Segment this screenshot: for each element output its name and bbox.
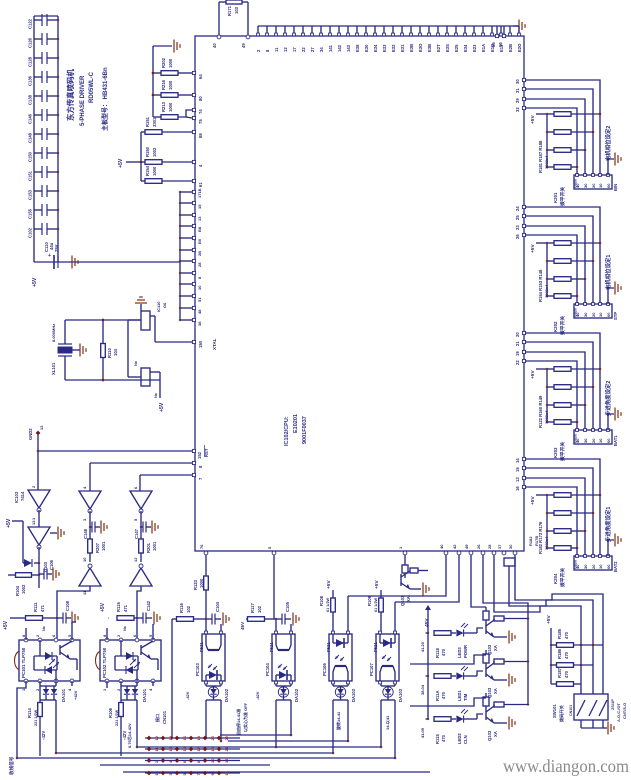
svg-text:TIM: TIM bbox=[463, 693, 468, 701]
svg-text:R108: R108 bbox=[319, 595, 324, 606]
op-amp gate T6 bbox=[130, 557, 152, 586]
label resistor names block2 bbox=[538, 269, 549, 302]
diode DA103 under PC106 bbox=[333, 684, 356, 702]
svg-text:R186: R186 bbox=[557, 648, 562, 659]
ground C108 bbox=[66, 612, 78, 625]
label +45V PC104 bbox=[240, 621, 245, 630]
svg-text:BAT2: BAT2 bbox=[613, 561, 618, 572]
svg-text:C148: C148 bbox=[83, 528, 88, 539]
svg-text:88: 88 bbox=[198, 133, 203, 138]
transistor Q2 inverter gate IC10B bbox=[128, 320, 160, 398]
svg-text:E30: E30 bbox=[364, 44, 369, 52]
wire pin 13 to switch bbox=[525, 478, 585, 556]
svg-text:DA102: DA102 bbox=[224, 688, 229, 702]
IC bottom edge pin cluster bbox=[439, 544, 517, 555]
svg-text:电机相位设定2: 电机相位设定2 bbox=[604, 126, 612, 161]
svg-text:00: 00 bbox=[606, 438, 611, 443]
node IC pin 29 block1 bbox=[515, 97, 526, 103]
transistor Q103 row2 bbox=[483, 650, 529, 698]
svg-text:27: 27 bbox=[310, 47, 315, 52]
resistor R185 470 bbox=[551, 628, 603, 647]
svg-text:E32: E32 bbox=[391, 44, 396, 52]
svg-text:1002x4: 1002x4 bbox=[544, 536, 549, 550]
capacitor chain C102-C155 decoupling bbox=[28, 14, 60, 262]
wire PC101 pin1 to signal bbox=[17, 681, 26, 758]
svg-text:471: 471 bbox=[40, 604, 45, 612]
capacitor C106 bbox=[39, 559, 54, 579]
diode DA103 under PC107 bbox=[381, 684, 403, 702]
svg-text:R154 R153 R148: R154 R153 R148 bbox=[538, 269, 543, 302]
node pin49 bbox=[241, 35, 250, 48]
svg-text:XA: XA bbox=[493, 731, 498, 737]
svg-text:PC103: PC103 bbox=[195, 663, 200, 676]
svg-text:C108: C108 bbox=[65, 600, 70, 611]
wire PC101 pin3 down bbox=[55, 681, 57, 753]
svg-text:1000: 1000 bbox=[199, 578, 204, 588]
svg-text:以实心为准 OFF: 以实心为准 OFF bbox=[242, 702, 248, 732]
svg-text:1001: 1001 bbox=[101, 541, 106, 551]
svg-text:E3B: E3B bbox=[409, 44, 414, 52]
capacitor C105 bbox=[276, 601, 290, 624]
label +5V gates bbox=[6, 518, 23, 528]
svg-text:11: 11 bbox=[274, 47, 279, 52]
svg-text:-42V: -42V bbox=[185, 691, 190, 700]
svg-text:E2T: E2T bbox=[436, 44, 441, 52]
svg-text:25V: 25V bbox=[54, 244, 59, 252]
resistor R202 1000 bbox=[153, 57, 192, 75]
svg-text:C142: C142 bbox=[146, 600, 151, 611]
svg-text:步进角度设定1: 步进角度设定1 bbox=[604, 507, 612, 542]
node IC pin 20 block3 bbox=[515, 331, 526, 337]
svg-text:25: 25 bbox=[515, 215, 520, 220]
svg-text:STP: STP bbox=[613, 312, 618, 320]
wire PC102 pin2 down bbox=[120, 681, 122, 702]
svg-text:49: 49 bbox=[241, 43, 246, 48]
wire LED rail bbox=[427, 610, 429, 719]
svg-text:E2O: E2O bbox=[517, 43, 522, 52]
crystal XL101 8.000M bbox=[51, 324, 72, 375]
resistor R151 3301 bbox=[141, 116, 192, 134]
svg-text:40: 40 bbox=[439, 544, 444, 549]
node pin 8 bbox=[192, 461, 203, 468]
wire PC104 outputs to CN101 bbox=[274, 700, 292, 749]
svg-text:37: 37 bbox=[497, 544, 502, 549]
svg-text:10: 10 bbox=[598, 438, 603, 443]
label +5V group2 bbox=[118, 158, 141, 168]
svg-text:R187: R187 bbox=[557, 667, 562, 678]
diode D103 bbox=[23, 559, 48, 572]
wire pin 29 to switch bbox=[525, 99, 585, 175]
label text under PC106 bbox=[335, 711, 341, 731]
wire +5V rail to C110 bbox=[34, 261, 180, 263]
svg-text:1002: 1002 bbox=[152, 147, 157, 157]
transistor Q103 row3 bbox=[483, 693, 529, 741]
svg-text:+5V: +5V bbox=[159, 402, 165, 412]
label +5V block4 bbox=[530, 494, 548, 505]
label BAT1 bbox=[613, 435, 618, 446]
resistor R115 471 bbox=[108, 602, 137, 621]
svg-text:E3O: E3O bbox=[418, 43, 423, 52]
svg-text:14-以41: 14-以41 bbox=[385, 715, 390, 730]
svg-text:32: 32 bbox=[515, 107, 520, 112]
wire R185 rail bbox=[550, 628, 553, 684]
label -42V b bbox=[122, 731, 127, 740]
node pins 74 75 bbox=[192, 108, 203, 124]
wire pin 24 to switch bbox=[525, 207, 600, 304]
wire T1 out to T7 bbox=[38, 510, 40, 527]
wire pin 26 to switch bbox=[525, 235, 577, 304]
svg-text:22: 22 bbox=[224, 735, 229, 740]
svg-text:14: 14 bbox=[515, 458, 520, 463]
ground SW101 bbox=[603, 722, 614, 735]
svg-text:-42V: -42V bbox=[255, 691, 260, 700]
svg-text:30: 30 bbox=[583, 312, 588, 317]
ground block3 bbox=[608, 408, 621, 431]
svg-text:+5V: +5V bbox=[6, 518, 12, 528]
svg-text:Nc: Nc bbox=[123, 626, 127, 631]
svg-text:12: 12 bbox=[133, 557, 138, 562]
svg-text:C102: C102 bbox=[28, 227, 33, 238]
capacitor C104 bbox=[206, 601, 220, 624]
svg-text:R116: R116 bbox=[179, 603, 184, 613]
svg-text:R185: R185 bbox=[557, 628, 562, 639]
svg-text:1002x4: 1002x4 bbox=[544, 155, 549, 169]
diode DA102 under PC103 bbox=[206, 684, 229, 702]
wire pin 30 to switch bbox=[525, 80, 600, 175]
svg-text:16: 16 bbox=[182, 735, 187, 740]
wire bundle c to Q103 base bbox=[471, 555, 486, 607]
resistor R216 1000 bbox=[153, 79, 192, 97]
svg-text:SW101: SW101 bbox=[552, 704, 557, 718]
svg-text:1000: 1000 bbox=[152, 166, 157, 176]
capacitor C148 bbox=[83, 522, 95, 540]
svg-text:R114: R114 bbox=[27, 708, 32, 718]
wire feed Q103 row3 bbox=[410, 698, 486, 706]
svg-text:PC106: PC106 bbox=[322, 663, 327, 676]
svg-text:GND8: GND8 bbox=[574, 560, 578, 569]
resistor R114 221 1/2W bbox=[27, 703, 42, 757]
resistor R187 470 bbox=[551, 667, 581, 686]
svg-text:POWR: POWR bbox=[463, 645, 468, 658]
node IC pin 22 block3 bbox=[515, 359, 526, 365]
svg-text:+5V: +5V bbox=[32, 277, 38, 287]
node IC pin 13 block4 bbox=[515, 476, 526, 482]
wire PC102 pin4 stub bbox=[152, 681, 154, 686]
svg-text:XA: XA bbox=[493, 688, 498, 694]
svg-text:+5V: +5V bbox=[530, 115, 536, 124]
resistor pullup block3 row4 bbox=[546, 420, 579, 425]
svg-text:拨码开关: 拨码开关 bbox=[558, 704, 565, 722]
svg-text:PC107: PC107 bbox=[369, 663, 374, 676]
svg-text:Q101: Q101 bbox=[400, 595, 405, 606]
svg-text:74: 74 bbox=[198, 109, 203, 114]
svg-text:38: 38 bbox=[197, 321, 202, 326]
capacitor C142 bbox=[137, 600, 151, 623]
resistor R110 104 bbox=[101, 318, 118, 381]
svg-text:15: 15 bbox=[197, 204, 202, 209]
resistor pullup block2 row4 bbox=[546, 294, 579, 299]
node net label row2 bbox=[420, 684, 425, 695]
wire top ground bus bbox=[258, 25, 519, 27]
svg-text:C104: C104 bbox=[215, 601, 220, 612]
svg-text:28: 28 bbox=[487, 544, 492, 549]
svg-text:主板型号： HB431-6Bn: 主板型号： HB431-6Bn bbox=[101, 67, 109, 131]
wire PC103 top right pin bbox=[220, 624, 222, 631]
svg-text:R150: R150 bbox=[145, 146, 150, 157]
svg-text:48: 48 bbox=[197, 309, 202, 314]
svg-text:30: 30 bbox=[508, 544, 513, 549]
label +5V R185 bbox=[546, 615, 552, 624]
resistor R109 61 1/2W bbox=[367, 590, 383, 631]
svg-text:470: 470 bbox=[441, 734, 446, 742]
connector CN101 pin row 3 bbox=[145, 758, 240, 763]
ground crystal bbox=[72, 344, 86, 357]
op-amp gate T2 bbox=[79, 486, 101, 521]
label BIN bbox=[613, 184, 618, 191]
svg-text:102: 102 bbox=[186, 605, 191, 613]
ground C148 bbox=[95, 521, 107, 534]
ground block1 bbox=[608, 153, 621, 176]
wire PC103 outputs to CN101 bbox=[204, 700, 222, 743]
svg-text:C105: C105 bbox=[285, 601, 290, 612]
label function block1 bbox=[604, 126, 612, 161]
svg-text:RD05WL-C: RD05WL-C bbox=[89, 71, 95, 103]
svg-text:LED2: LED2 bbox=[457, 733, 462, 744]
resistor R116 102 bbox=[172, 603, 207, 622]
resistor pullup block3 row1 bbox=[547, 367, 602, 372]
svg-text:拨平开关: 拨平开关 bbox=[559, 316, 566, 335]
svg-text:22: 22 bbox=[301, 47, 306, 52]
resistor R201 1001 bbox=[139, 539, 157, 562]
svg-text:30: 30 bbox=[583, 564, 588, 569]
svg-text:15: 15 bbox=[515, 467, 520, 472]
svg-text:DA103: DA103 bbox=[351, 688, 356, 702]
svg-text:P521: P521 bbox=[199, 642, 204, 652]
svg-text:8.000MHz: 8.000MHz bbox=[51, 324, 56, 342]
svg-text:20: 20 bbox=[591, 312, 596, 317]
svg-text:42: 42 bbox=[452, 544, 457, 549]
resistor pullup block2 row3 bbox=[546, 277, 587, 282]
wire pin 23 to switch bbox=[525, 226, 585, 304]
svg-text:+: + bbox=[48, 253, 51, 259]
label +5V block2 bbox=[530, 242, 548, 253]
svg-text:R118: R118 bbox=[435, 648, 440, 658]
svg-text:49: 49 bbox=[464, 544, 469, 549]
svg-text:10: 10 bbox=[598, 312, 603, 317]
svg-text:20: 20 bbox=[210, 735, 215, 740]
wire pin7 to gate T3 bbox=[140, 475, 192, 491]
wire pullup rail block2 bbox=[546, 243, 548, 296]
svg-text:E23: E23 bbox=[472, 44, 477, 52]
resistor R118 and LED LED3 bbox=[426, 623, 484, 658]
connector K202 block2 bbox=[574, 303, 613, 318]
svg-text:Nc: Nc bbox=[42, 626, 46, 631]
wire rail group2 bbox=[139, 132, 142, 181]
node IC pin 26 block2 bbox=[515, 233, 526, 239]
svg-text:C155: C155 bbox=[28, 208, 33, 219]
resistor R123 1000 bbox=[193, 555, 208, 631]
svg-text:自由停14-41准: 自由停14-41准 bbox=[235, 709, 241, 735]
wire bundle e to SW col1 bbox=[494, 555, 581, 694]
resistor pullup block1 row2 bbox=[546, 130, 595, 135]
node pin 80 bbox=[151, 93, 203, 101]
svg-text:C148: C148 bbox=[28, 132, 33, 143]
svg-text:PC102 TLP750: PC102 TLP750 bbox=[102, 647, 107, 678]
svg-text:471: 471 bbox=[123, 604, 128, 612]
resistor pullup block2 row2 bbox=[546, 259, 595, 264]
svg-text:Q103: Q103 bbox=[487, 730, 492, 741]
label function block2 bbox=[604, 255, 612, 290]
svg-text:PC101 TLP750: PC101 TLP750 bbox=[21, 647, 26, 678]
svg-text:1000: 1000 bbox=[168, 102, 173, 112]
svg-text:B0: B0 bbox=[197, 238, 202, 244]
svg-text:E3B: E3B bbox=[427, 44, 432, 52]
svg-text:CN101: CN101 bbox=[162, 710, 167, 724]
resistor pullup block2 row1 bbox=[547, 241, 602, 246]
svg-text:171B: 171B bbox=[197, 188, 202, 198]
svg-text:22: 22 bbox=[515, 360, 520, 365]
svg-text:GND8: GND8 bbox=[574, 179, 578, 188]
svg-text:+5V: +5V bbox=[100, 602, 106, 612]
svg-text:BIN: BIN bbox=[613, 184, 618, 191]
svg-text:-42V: -42V bbox=[41, 731, 46, 740]
connector CN101 pin row 4 bbox=[145, 770, 240, 775]
svg-text:CLN: CLN bbox=[463, 735, 468, 744]
svg-text:15: 15 bbox=[182, 746, 187, 751]
ground Q103 row3 bbox=[494, 717, 515, 730]
wire bundle f to SW col2 bbox=[509, 566, 593, 694]
label +5V bbox=[32, 277, 38, 287]
svg-text:电机相位设定1: 电机相位设定1 bbox=[604, 255, 612, 290]
label SW101 functions bbox=[610, 699, 627, 722]
svg-text:R11A: R11A bbox=[435, 691, 440, 701]
svg-text:LED3: LED3 bbox=[457, 647, 462, 658]
svg-text:E34: E34 bbox=[463, 44, 468, 52]
wire bundle b to PC107 bbox=[395, 555, 459, 631]
diode pair DA101b bbox=[121, 686, 147, 702]
svg-text:P521: P521 bbox=[326, 642, 331, 652]
svg-text:E10201: E10201 bbox=[293, 414, 299, 433]
svg-text:75: 75 bbox=[198, 119, 203, 124]
node IC pin 25 block2 bbox=[515, 214, 526, 220]
resistor R115 and LED LED2 bbox=[426, 709, 484, 744]
svg-text:BAT1: BAT1 bbox=[613, 435, 618, 446]
wire PC102 pin1 stub bbox=[106, 681, 108, 688]
label +5V R109 bbox=[374, 580, 380, 589]
svg-text:221 1/2W: 221 1/2W bbox=[34, 709, 38, 726]
diode pair DA101 bbox=[40, 686, 66, 702]
label text under PC107 bbox=[385, 715, 390, 730]
svg-text:P521: P521 bbox=[373, 642, 378, 652]
svg-text:步进角度设定2: 步进角度设定2 bbox=[604, 381, 612, 416]
svg-text:80: 80 bbox=[198, 96, 203, 101]
svg-text:R111: R111 bbox=[33, 602, 38, 612]
label +5V block3 bbox=[530, 368, 548, 379]
svg-text:LED1: LED1 bbox=[457, 690, 462, 701]
wire PC101 pin4 stub bbox=[71, 681, 73, 686]
ground C142 bbox=[146, 612, 160, 625]
svg-text:GND8: GND8 bbox=[574, 434, 578, 443]
svg-text:K203: K203 bbox=[553, 447, 558, 458]
svg-text:C151: C151 bbox=[28, 170, 33, 181]
svg-text:E3S: E3S bbox=[445, 44, 450, 52]
svg-text:45V: 45V bbox=[424, 618, 430, 627]
wire T2 out to C148 node bbox=[89, 511, 91, 539]
diode DA102 under PC104 bbox=[276, 684, 299, 702]
svg-text:DA101: DA101 bbox=[142, 688, 147, 702]
svg-text:IC103: IC103 bbox=[14, 491, 19, 503]
svg-text:XA: XA bbox=[493, 645, 498, 651]
svg-text:45V: 45V bbox=[240, 621, 245, 630]
resistor pullup block1 row1 bbox=[547, 112, 602, 117]
svg-text:R122 R160 R149: R122 R160 R149 bbox=[538, 395, 543, 428]
svg-text:470: 470 bbox=[441, 648, 446, 656]
svg-text:P521: P521 bbox=[269, 642, 274, 652]
svg-text:1002x4: 1002x4 bbox=[544, 284, 549, 298]
node IC pin 32 block1 bbox=[515, 106, 526, 112]
svg-text:12: 12 bbox=[224, 758, 229, 763]
wire bundle loop bbox=[504, 558, 515, 566]
svg-text:GND2: GND2 bbox=[28, 428, 33, 440]
resistor R106 221 1/2W bbox=[108, 703, 123, 757]
ground block4 bbox=[608, 534, 621, 557]
node junction R185 bbox=[579, 643, 594, 646]
wire GND2 to RST pin bbox=[36, 435, 192, 490]
node IC pin 15 block4 bbox=[515, 466, 526, 472]
svg-text:1000: 1000 bbox=[168, 58, 173, 68]
svg-text:R154: R154 bbox=[145, 165, 150, 176]
svg-text:142: 142 bbox=[337, 44, 342, 52]
node IC pin 1 bbox=[398, 546, 407, 555]
connector CN101 pin row 1 bbox=[145, 735, 240, 740]
svg-text:20: 20 bbox=[591, 438, 596, 443]
node IC pin 14 block4 bbox=[515, 457, 526, 463]
svg-text:R202: R202 bbox=[161, 57, 166, 68]
svg-text:R115: R115 bbox=[435, 734, 440, 744]
wire T5 input to PC101 bbox=[56, 586, 90, 640]
svg-text:2B: 2B bbox=[197, 251, 202, 256]
label +5V crystal bbox=[159, 380, 165, 412]
label +42V bbox=[73, 690, 78, 700]
svg-text:A.O.C./OT: A.O.C./OT bbox=[616, 703, 621, 722]
svg-text:00: 00 bbox=[606, 183, 611, 188]
svg-text:51: 51 bbox=[197, 297, 202, 302]
wire pin 14 to switch bbox=[525, 459, 600, 556]
svg-text:26: 26 bbox=[476, 544, 481, 549]
svg-text:R109: R109 bbox=[367, 595, 372, 606]
resistor R11A and LED LED1 bbox=[426, 666, 484, 701]
svg-text:13: 13 bbox=[168, 746, 173, 751]
svg-text:E33: E33 bbox=[382, 44, 387, 52]
node GND2 bbox=[28, 425, 44, 440]
svg-text:17: 17 bbox=[196, 746, 201, 751]
ground Q101 bbox=[410, 583, 429, 596]
svg-text:28: 28 bbox=[197, 262, 202, 267]
title text block bbox=[66, 67, 109, 131]
svg-text:K202: K202 bbox=[553, 321, 558, 332]
svg-text:19: 19 bbox=[515, 351, 520, 356]
wire PC101 pin5 up bbox=[72, 622, 76, 640]
wire pullup rail block1 bbox=[546, 114, 548, 167]
svg-text:470: 470 bbox=[564, 670, 569, 678]
svg-text:13: 13 bbox=[515, 477, 520, 482]
wire bundle g to SW col3 bbox=[515, 555, 603, 694]
wire gate aux rail bbox=[22, 521, 24, 563]
resistor pullup block4 row1 bbox=[547, 493, 602, 498]
wire pin 22 to switch bbox=[525, 361, 577, 430]
svg-text:10: 10 bbox=[210, 758, 215, 763]
svg-text:C146: C146 bbox=[28, 113, 33, 124]
